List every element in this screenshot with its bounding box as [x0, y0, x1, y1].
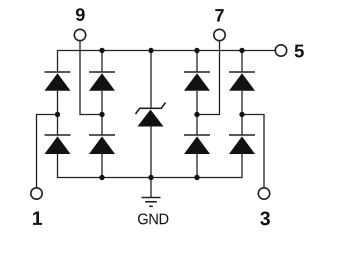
- junction node col1/mid: [55, 112, 60, 117]
- wire top rail: [58, 51, 276, 73]
- wire pin 1 stub: [37, 115, 58, 188]
- terminal pin 3: [258, 188, 269, 199]
- wire pin 9 stub: [80, 41, 102, 115]
- junction node col2/bottom: [99, 175, 104, 180]
- diode D5 lower col 1: [45, 135, 71, 154]
- pin label 1: [33, 211, 42, 224]
- wire column 2 upper: [101, 51, 103, 73]
- wire column 3 upper: [196, 51, 198, 73]
- terminal pin 9: [74, 29, 85, 40]
- wire column 3 lower: [196, 154, 198, 178]
- ground: [142, 178, 161, 207]
- wire pin 7 stub: [197, 41, 220, 115]
- pin label 3: [260, 211, 270, 225]
- terminal pin 1: [31, 188, 42, 199]
- wire column 4 mid: [241, 91, 243, 135]
- diode D6 lower col 2: [89, 135, 115, 154]
- wire column 2 mid: [101, 91, 103, 135]
- pin label 7: [215, 9, 223, 21]
- wire column 4 upper: [241, 51, 243, 73]
- wire column 3 mid: [196, 91, 198, 135]
- wire pin 3 stub: [242, 115, 264, 188]
- terminal pin 7: [214, 29, 225, 40]
- diode D1 upper col 1: [45, 72, 71, 91]
- junction node col3/top: [194, 48, 199, 53]
- diode D2 upper col 2: [89, 72, 115, 91]
- pin label 9: [76, 8, 85, 21]
- junction node col2/top: [99, 48, 104, 53]
- wire column 1 mid: [57, 91, 59, 135]
- wire bottom rail: [58, 154, 243, 178]
- wire zener column: [150, 51, 152, 178]
- zener diode Z1: [136, 103, 166, 127]
- junction node col2/mid: [99, 112, 104, 117]
- diode D8 lower col 4: [229, 135, 255, 154]
- junction node zener/top: [148, 48, 153, 53]
- junction node col4/top: [239, 48, 244, 53]
- diode D4 upper col 4: [229, 72, 255, 91]
- junction node zener/bottom: [148, 175, 153, 180]
- junction node col3/bottom: [194, 175, 199, 180]
- junction node col3/mid: [194, 112, 199, 117]
- diode D3 upper col 3: [184, 72, 210, 91]
- junction node col4/mid: [239, 112, 244, 117]
- pin label 5: [295, 45, 304, 58]
- net label GND: [138, 213, 168, 224]
- terminal pin 5: [275, 45, 286, 56]
- wire column 2 lower: [101, 154, 103, 178]
- diode D7 lower col 3: [184, 135, 210, 154]
